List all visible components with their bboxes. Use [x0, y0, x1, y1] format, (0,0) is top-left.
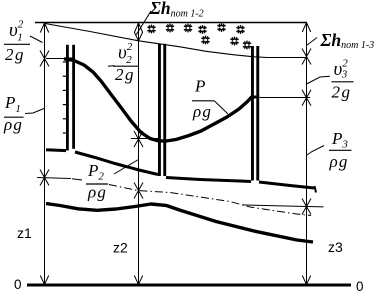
- label P1/rho-g: [3, 93, 24, 134]
- svg-text:υ22: υ22: [118, 41, 133, 66]
- label P3/rho-g: [329, 129, 352, 171]
- left top arrow: [40, 23, 48, 33]
- water level extension line section 2: [131, 138, 158, 140]
- pipe axis dash-dot line: [109, 185, 311, 216]
- svg-text:υ21: υ21: [9, 19, 24, 44]
- middle bottom arrow: [134, 276, 142, 285]
- label v2^2/2g: [113, 41, 139, 84]
- piezometer tube 2 right wall: [163, 44, 166, 176]
- piezometer tube 2 left wall: [158, 44, 161, 176]
- right dimension line: [306, 23, 308, 285]
- leader for P3 head: [307, 146, 324, 156]
- svg-text:z1: z1: [17, 225, 32, 241]
- label v1^2/2g: [4, 19, 30, 65]
- pipe axis extension at section 1: [37, 178, 71, 179]
- svg-text:ρg: ρg: [192, 102, 212, 121]
- leader for v1 head: [30, 36, 43, 43]
- svg-text:z3: z3: [328, 239, 343, 255]
- svg-text:0: 0: [14, 277, 22, 292]
- label v3^2/2g: [332, 58, 354, 102]
- leader for P head: [215, 101, 229, 114]
- svg-text:2g: 2g: [332, 83, 352, 102]
- pipe upper wall end tick: [315, 186, 317, 193]
- tube 3 water level bridge: [251, 96, 259, 99]
- middle X tick axis level 2: [134, 183, 143, 199]
- piezometer tube 3 left wall: [251, 46, 254, 181]
- pipe upper wall tube2-tube3: [166, 178, 251, 182]
- water level extension line section 1: [46, 58, 64, 60]
- svg-text:P: P: [194, 77, 205, 96]
- leader for P2 head: [114, 160, 139, 175]
- tube 1 water level bridge: [66, 58, 75, 61]
- datum line 0-0: [27, 284, 351, 287]
- pipe upper wall right of tube 3: [259, 182, 314, 188]
- label P2/rho-g: [86, 161, 108, 202]
- leader for v2 head: [108, 65, 115, 68]
- svg-text:ρg: ρg: [3, 115, 23, 134]
- svg-text:2g: 2g: [5, 45, 25, 64]
- piezometer tube 1 left wall: [66, 45, 69, 151]
- middle dimension line: [138, 23, 140, 285]
- left X tick water level 1: [40, 51, 49, 67]
- right X tick piezometric level 3: [302, 90, 311, 106]
- pipe axis dash-dot segment 1: [72, 179, 82, 180]
- right top arrow: [302, 23, 310, 33]
- piezometer tube 3 right wall: [256, 46, 259, 181]
- piezometric line (thick curve): [64, 59, 252, 141]
- svg-text:ρg: ρg: [329, 152, 349, 171]
- middle down arrow at energy line: [134, 32, 142, 41]
- middle top arrow: [134, 23, 142, 33]
- energy line (sloping thin line): [45, 24, 307, 58]
- tube 1 scale ticks: [63, 62, 66, 133]
- pipe upper wall tube1-tube2: [75, 152, 158, 175]
- leader for sum h 1-3: [307, 38, 318, 46]
- right X tick energy level 3: [302, 49, 311, 65]
- svg-text:ρg: ρg: [87, 183, 107, 202]
- left dimension line: [44, 23, 46, 285]
- leader for sum h 1-2: [136, 11, 151, 35]
- svg-text:0: 0: [356, 279, 364, 294]
- right bottom arrow: [302, 276, 310, 285]
- pipe upper wall left of tube 1: [46, 148, 66, 152]
- piezometer tube 1 right wall: [72, 45, 75, 149]
- label P/rho-g (middle): [192, 77, 215, 122]
- left bottom arrow: [40, 276, 48, 285]
- svg-text:2g: 2g: [115, 65, 135, 84]
- axis level extension line section 3: [242, 205, 324, 207]
- head-loss asterisks: [147, 23, 251, 49]
- right X tick axis level 3: [302, 199, 311, 215]
- middle X tick water level 2: [134, 131, 143, 147]
- leader for v3 head: [307, 76, 331, 84]
- svg-text:υ23: υ23: [334, 58, 349, 81]
- svg-text:z2: z2: [113, 240, 128, 256]
- leader for P1 head: [25, 109, 44, 114]
- pipe lower wall: [46, 204, 313, 243]
- initial total head line (top horizontal): [35, 22, 307, 24]
- water level extension line section 3: [260, 97, 311, 99]
- left X tick axis level 1: [40, 170, 49, 186]
